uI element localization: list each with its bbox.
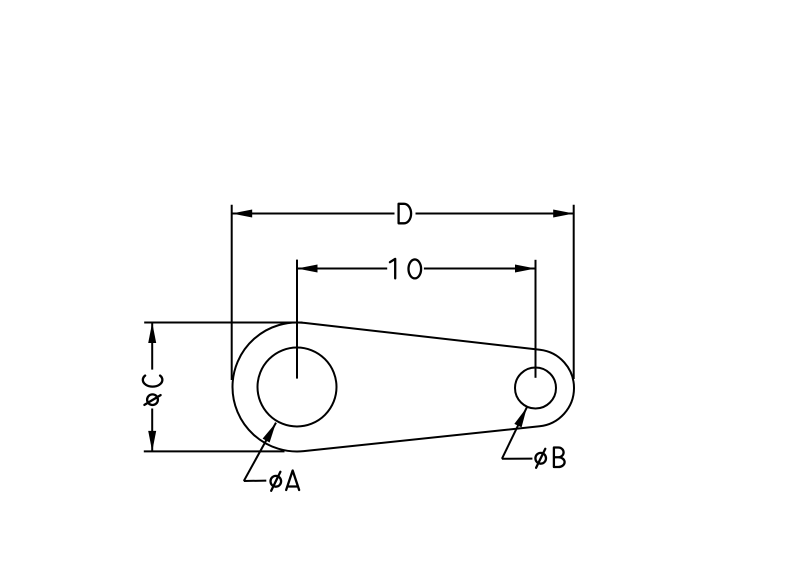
label øC (rotated, reads upward) [143,376,163,405]
centerline hole B / extension line 10 right [535,260,537,378]
arrowhead C top [148,323,156,344]
label øA diameter symbol [271,472,282,491]
label øB diameter symbol [535,449,546,468]
extension line D left [231,205,233,380]
arrowhead D left [232,210,253,218]
arrowhead leader B [514,407,527,427]
label 10 digit 1 [390,259,395,279]
dimension line 10 [297,268,387,270]
leader B shoulder [502,458,533,460]
label 10 digit 0 [409,259,422,278]
arrowhead 10 right [515,265,536,273]
dimension line C [151,323,153,370]
label A [286,471,299,491]
arrowhead D right [553,210,574,218]
part outline (lever body) [232,322,574,451]
hole B (small bore) [515,368,556,409]
centerline hole A / extension line 10 left [296,260,298,379]
dimension line D [232,213,395,215]
arrowhead leader A [263,423,276,443]
leader A shoulder [244,480,266,482]
extension line C top [144,322,302,324]
leader B arrow line [502,407,527,459]
label D [399,204,412,224]
hole A (large bore) [258,348,337,427]
arrowhead C bottom [148,431,156,452]
arrowhead 10 left [297,265,318,273]
extension line D right [573,205,575,379]
leader A arrow line [244,423,276,481]
label B [554,448,565,468]
extension line C bottom [144,450,285,452]
